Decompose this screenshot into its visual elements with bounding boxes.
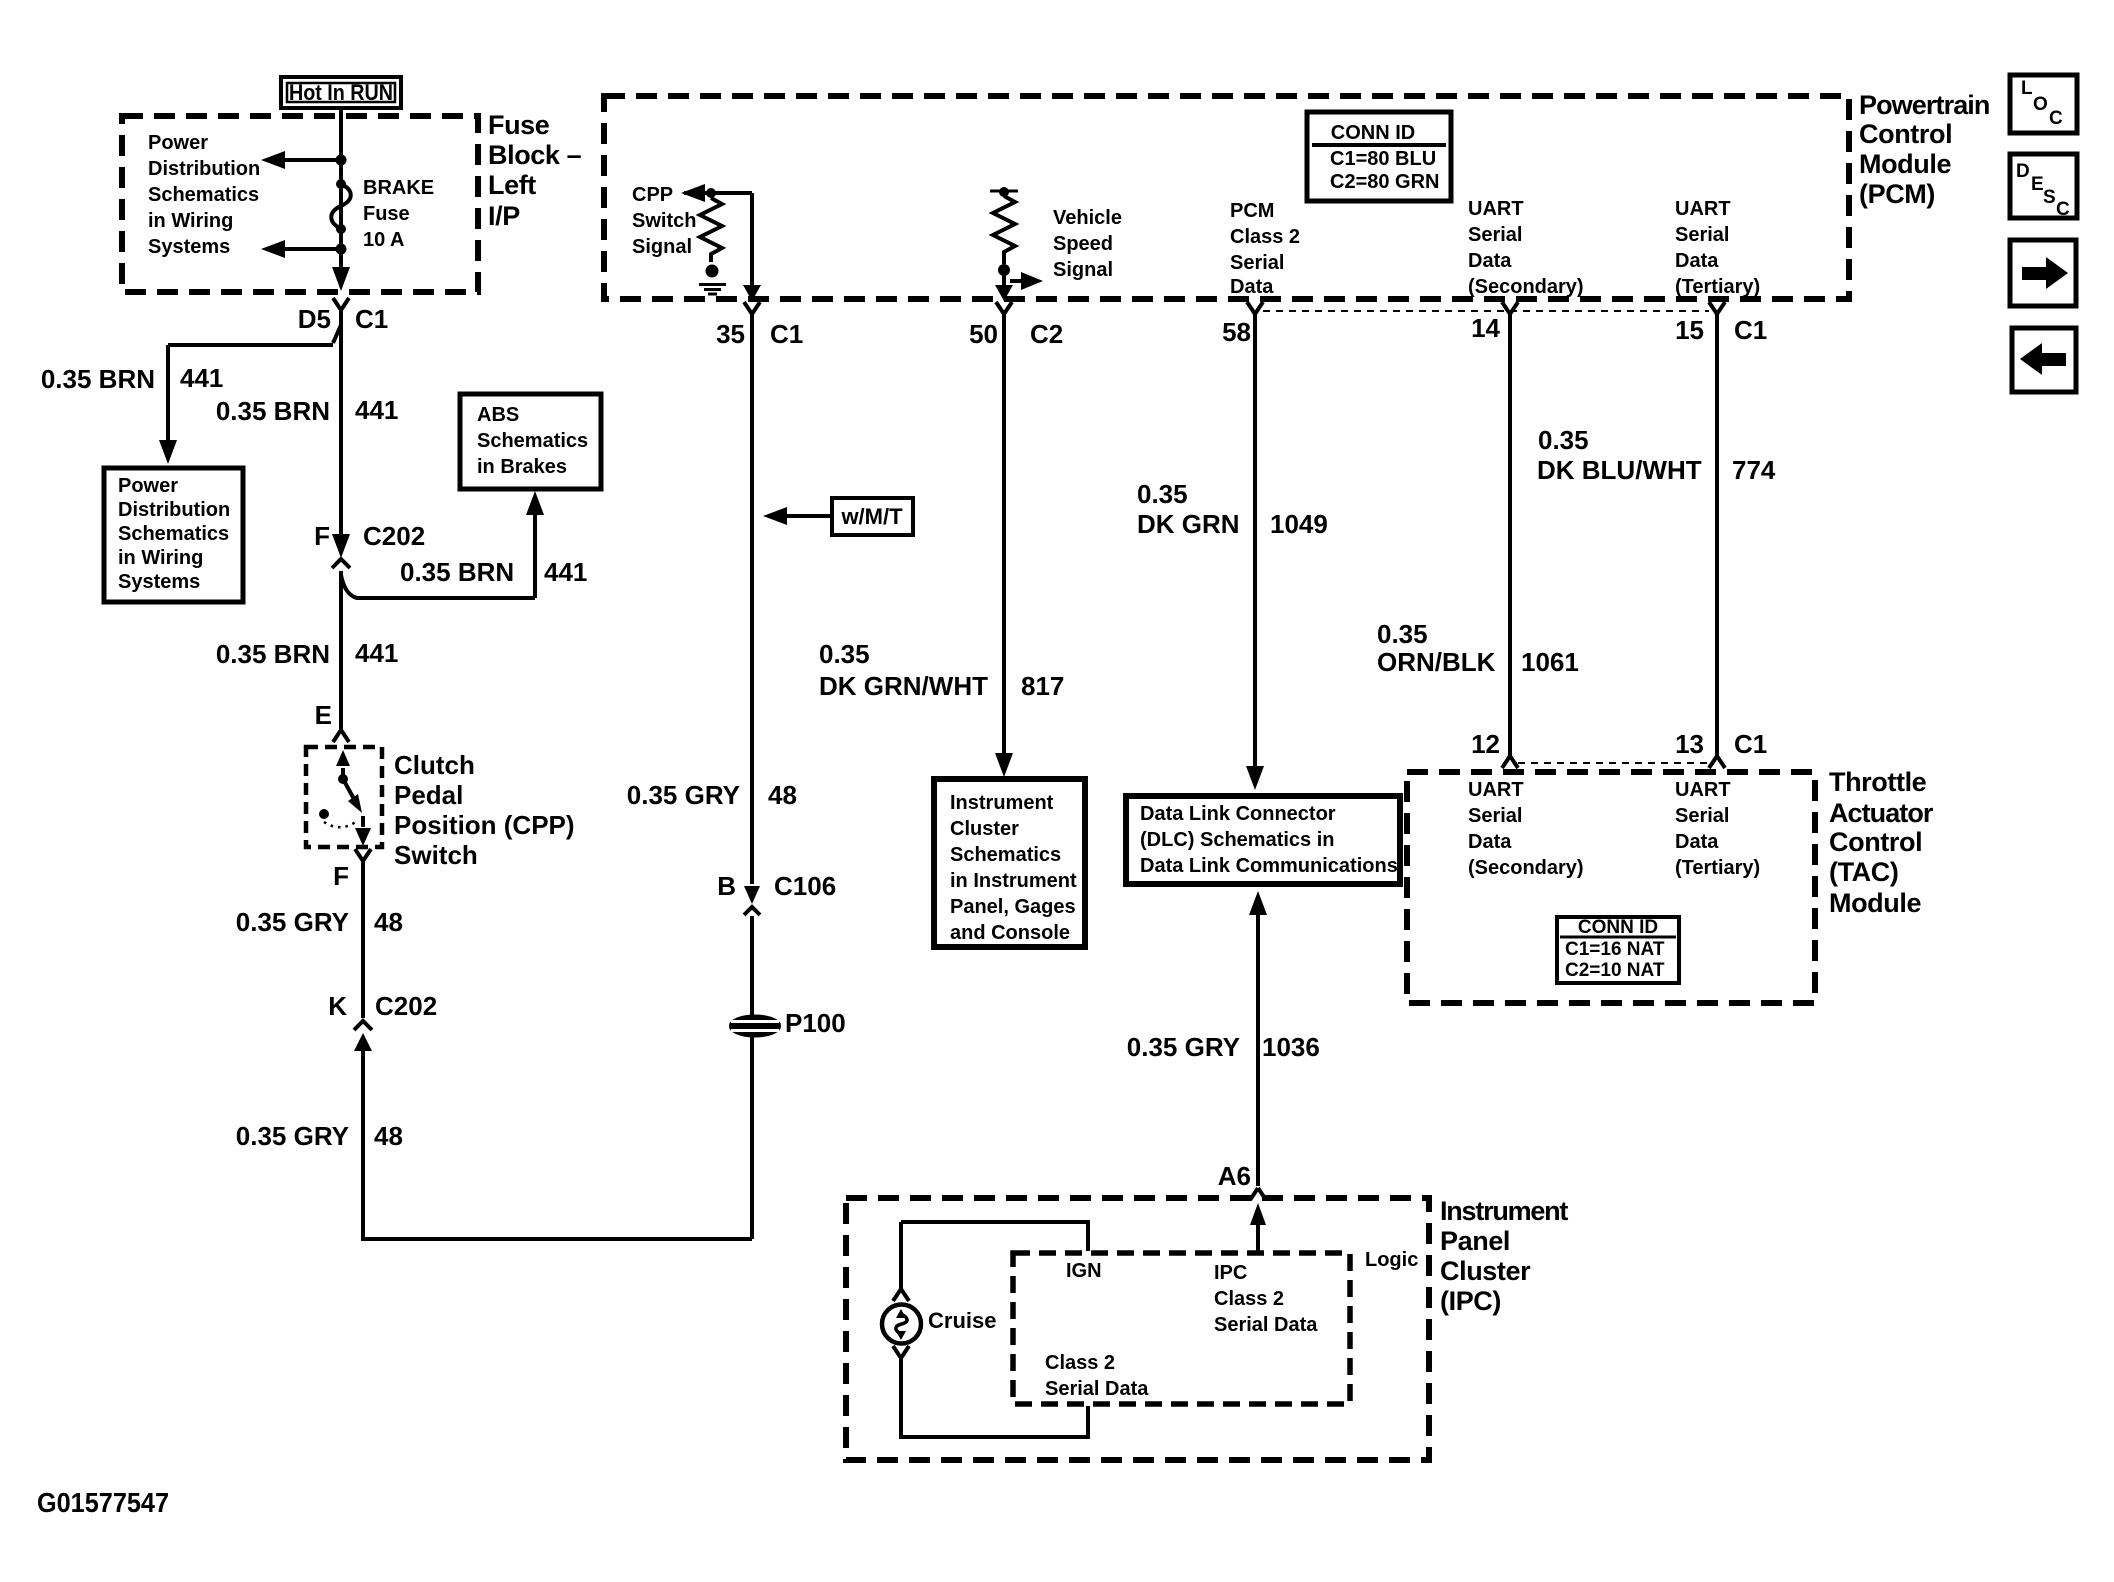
svg-text:O: O (2033, 94, 2048, 115)
svg-text:C106: C106 (774, 871, 836, 901)
svg-text:Pedal: Pedal (394, 780, 463, 810)
svg-text:0.35 GRY: 0.35 GRY (627, 780, 740, 810)
svg-text:50: 50 (969, 319, 998, 349)
svg-text:P100: P100 (785, 1008, 846, 1038)
svg-text:E: E (2031, 174, 2044, 195)
svg-text:and Console: and Console (950, 922, 1070, 944)
svg-text:1061: 1061 (1521, 647, 1579, 677)
svg-text:DK BLU/WHT: DK BLU/WHT (1537, 455, 1702, 485)
svg-text:1036: 1036 (1262, 1032, 1320, 1062)
svg-text:in Wiring: in Wiring (118, 547, 203, 569)
svg-text:0.35: 0.35 (1538, 425, 1589, 455)
svg-text:0.35 BRN: 0.35 BRN (216, 396, 330, 426)
svg-text:Block –: Block – (488, 140, 582, 170)
svg-text:Class 2: Class 2 (1230, 226, 1300, 248)
svg-text:15: 15 (1675, 315, 1704, 345)
svg-text:C1: C1 (1734, 315, 1767, 345)
svg-text:I/P: I/P (488, 201, 520, 231)
svg-text:S: S (2043, 187, 2056, 208)
svg-text:0.35 GRY: 0.35 GRY (1127, 1032, 1240, 1062)
svg-text:Serial Data: Serial Data (1214, 1314, 1318, 1336)
svg-text:0.35 GRY: 0.35 GRY (236, 907, 349, 937)
svg-text:0.35 BRN: 0.35 BRN (400, 557, 514, 587)
svg-text:10 A: 10 A (363, 229, 405, 251)
svg-text:0.35 GRY: 0.35 GRY (236, 1121, 349, 1151)
svg-text:C1: C1 (770, 319, 803, 349)
svg-text:12: 12 (1471, 729, 1500, 759)
svg-text:(Secondary): (Secondary) (1468, 276, 1584, 298)
svg-text:D5: D5 (298, 304, 331, 334)
svg-text:(Secondary): (Secondary) (1468, 857, 1584, 879)
svg-text:DK GRN: DK GRN (1137, 509, 1240, 539)
svg-text:Serial Data: Serial Data (1045, 1378, 1149, 1400)
svg-text:UART: UART (1468, 779, 1524, 801)
svg-text:PCM: PCM (1230, 200, 1274, 222)
svg-text:Left: Left (488, 170, 536, 200)
svg-text:0.35 BRN: 0.35 BRN (41, 364, 155, 394)
svg-text:C2: C2 (1030, 319, 1063, 349)
svg-text:Cluster: Cluster (950, 818, 1019, 840)
svg-text:Data: Data (1230, 276, 1274, 298)
svg-text:14: 14 (1471, 313, 1500, 343)
svg-text:Serial: Serial (1675, 224, 1729, 246)
svg-text:in Brakes: in Brakes (477, 456, 567, 478)
svg-text:G01577547: G01577547 (37, 1487, 169, 1518)
svg-text:Logic: Logic (1365, 1249, 1418, 1271)
svg-text:Schematics: Schematics (477, 430, 588, 452)
svg-text:Switch: Switch (394, 840, 478, 870)
svg-text:Vehicle: Vehicle (1053, 207, 1122, 229)
svg-text:(PCM): (PCM) (1859, 179, 1935, 209)
svg-text:Serial: Serial (1230, 252, 1284, 274)
svg-text:48: 48 (374, 907, 403, 937)
svg-text:F: F (333, 861, 349, 891)
svg-text:C1: C1 (355, 304, 388, 334)
svg-text:Data Link Communications: Data Link Communications (1140, 855, 1398, 877)
svg-text:Instrument: Instrument (1440, 1196, 1568, 1226)
svg-text:Control: Control (1829, 827, 1922, 857)
svg-text:UART: UART (1675, 198, 1731, 220)
svg-text:817: 817 (1021, 671, 1064, 701)
svg-text:IGN: IGN (1066, 1260, 1102, 1282)
svg-text:w/M/T: w/M/T (840, 504, 903, 529)
svg-text:ORN/BLK: ORN/BLK (1377, 647, 1496, 677)
svg-text:Fuse: Fuse (363, 203, 410, 225)
svg-text:B: B (717, 871, 736, 901)
svg-text:(TAC): (TAC) (1829, 857, 1898, 887)
svg-text:C2=10 NAT: C2=10 NAT (1565, 960, 1665, 981)
svg-text:A6: A6 (1218, 1161, 1251, 1191)
svg-text:Panel: Panel (1440, 1226, 1510, 1256)
svg-text:Serial: Serial (1468, 805, 1522, 827)
svg-text:UART: UART (1468, 198, 1524, 220)
svg-text:CONN ID: CONN ID (1331, 122, 1415, 144)
svg-text:Schematics: Schematics (118, 523, 229, 545)
svg-text:Distribution: Distribution (148, 158, 260, 180)
svg-text:Powertrain: Powertrain (1859, 90, 1990, 120)
svg-text:1049: 1049 (1270, 509, 1328, 539)
svg-text:Cruise: Cruise (928, 1308, 996, 1333)
svg-text:Fuse: Fuse (488, 110, 550, 140)
svg-text:441: 441 (180, 363, 223, 393)
svg-text:Systems: Systems (148, 236, 230, 258)
svg-text:Schematics: Schematics (950, 844, 1061, 866)
svg-text:Serial: Serial (1675, 805, 1729, 827)
svg-text:Instrument: Instrument (950, 792, 1054, 814)
svg-text:441: 441 (355, 395, 398, 425)
svg-text:0.35 BRN: 0.35 BRN (216, 639, 330, 669)
svg-text:Panel, Gages: Panel, Gages (950, 896, 1076, 918)
svg-text:C: C (2056, 199, 2070, 220)
svg-text:0.35: 0.35 (819, 639, 870, 669)
svg-text:K: K (328, 991, 347, 1021)
svg-text:Hot In RUN: Hot In RUN (289, 80, 393, 105)
svg-text:Power: Power (118, 475, 178, 497)
svg-text:Cluster: Cluster (1440, 1256, 1531, 1286)
svg-text:Switch: Switch (632, 210, 696, 232)
svg-text:F: F (314, 521, 330, 551)
svg-text:DK GRN/WHT: DK GRN/WHT (819, 671, 988, 701)
svg-text:Distribution: Distribution (118, 499, 230, 521)
svg-text:C1=80 BLU: C1=80 BLU (1330, 148, 1436, 170)
svg-text:Module: Module (1829, 888, 1921, 918)
svg-text:Control: Control (1859, 119, 1952, 149)
svg-text:L: L (2021, 78, 2033, 99)
svg-text:Speed: Speed (1053, 233, 1113, 255)
svg-text:(Tertiary): (Tertiary) (1675, 857, 1760, 879)
svg-text:Data: Data (1468, 831, 1512, 853)
svg-text:in Instrument: in Instrument (950, 870, 1077, 892)
svg-text:Schematics: Schematics (148, 184, 259, 206)
svg-text:Data: Data (1675, 250, 1719, 272)
svg-text:C: C (2049, 108, 2063, 129)
svg-text:UART: UART (1675, 779, 1731, 801)
svg-text:ABS: ABS (477, 404, 519, 426)
svg-text:Data Link Connector: Data Link Connector (1140, 803, 1336, 825)
svg-text:13: 13 (1675, 729, 1704, 759)
svg-text:C1=16 NAT: C1=16 NAT (1565, 939, 1665, 960)
svg-text:Module: Module (1859, 149, 1951, 179)
svg-text:Data: Data (1468, 250, 1512, 272)
svg-text:441: 441 (355, 638, 398, 668)
svg-text:Actuator: Actuator (1829, 798, 1934, 828)
svg-text:(DLC) Schematics in: (DLC) Schematics in (1140, 829, 1334, 851)
svg-text:C1: C1 (1734, 729, 1767, 759)
svg-text:Systems: Systems (118, 571, 200, 593)
svg-text:Signal: Signal (632, 236, 692, 258)
svg-text:35: 35 (716, 319, 745, 349)
svg-text:441: 441 (544, 557, 587, 587)
svg-text:Signal: Signal (1053, 259, 1113, 281)
svg-text:48: 48 (768, 780, 797, 810)
svg-text:E: E (315, 700, 332, 730)
svg-text:0.35: 0.35 (1377, 619, 1428, 649)
svg-text:Class 2: Class 2 (1214, 1288, 1284, 1310)
svg-text:Class 2: Class 2 (1045, 1352, 1115, 1374)
svg-text:C202: C202 (375, 991, 437, 1021)
svg-text:Serial: Serial (1468, 224, 1522, 246)
svg-text:IPC: IPC (1214, 1262, 1247, 1284)
svg-text:Power: Power (148, 132, 208, 154)
svg-text:Throttle: Throttle (1829, 767, 1927, 797)
svg-text:Position (CPP): Position (CPP) (394, 810, 575, 840)
svg-text:in Wiring: in Wiring (148, 210, 233, 232)
svg-text:Data: Data (1675, 831, 1719, 853)
svg-text:774: 774 (1732, 455, 1776, 485)
svg-text:58: 58 (1222, 317, 1251, 347)
svg-text:C202: C202 (363, 521, 425, 551)
svg-text:C2=80 GRN: C2=80 GRN (1330, 171, 1440, 193)
svg-text:(Tertiary): (Tertiary) (1675, 276, 1760, 298)
svg-text:(IPC): (IPC) (1440, 1286, 1501, 1316)
svg-text:CPP: CPP (632, 184, 673, 206)
svg-text:CONN ID: CONN ID (1578, 917, 1658, 938)
svg-text:D: D (2016, 161, 2030, 182)
svg-text:48: 48 (374, 1121, 403, 1151)
svg-text:Clutch: Clutch (394, 750, 475, 780)
svg-text:0.35: 0.35 (1137, 479, 1188, 509)
svg-text:BRAKE: BRAKE (363, 177, 434, 199)
